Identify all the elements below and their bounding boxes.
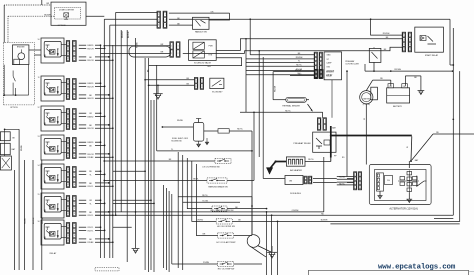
svg-text:RD/YL: RD/YL: [285, 110, 292, 112]
svg-text:3: 3: [74, 179, 75, 181]
svg-text:RD/WH: RD/WH: [296, 57, 303, 59]
svg-text:HANDLE SW: HANDLE SW: [195, 30, 207, 33]
svg-text:14: 14: [38, 165, 40, 167]
svg-text:15: 15: [38, 194, 40, 196]
svg-text:10: 10: [38, 39, 40, 41]
svg-text:RD/GN: RD/GN: [275, 85, 277, 92]
svg-text:1: 1: [74, 43, 75, 45]
svg-text:BK/OR: BK/OR: [87, 98, 94, 100]
svg-text:BK/RD: BK/RD: [88, 142, 95, 144]
svg-text:BU/WH: BU/WH: [321, 220, 328, 222]
svg-text:1: 1: [196, 80, 197, 82]
svg-text:4: 4: [74, 96, 75, 98]
svg-text:RD/BU: RD/BU: [177, 120, 184, 122]
svg-text:3: 3: [74, 208, 75, 210]
svg-text:2: 2: [74, 145, 75, 147]
svg-text:RELAY: RELAY: [50, 252, 57, 255]
svg-text:RD/YL: RD/YL: [237, 128, 244, 130]
svg-text:BK/RD: BK/RD: [88, 45, 95, 47]
svg-text:RD/YL: RD/YL: [88, 227, 95, 229]
svg-text:BK/RD: BK/RD: [88, 116, 95, 118]
svg-text:1: 1: [74, 140, 75, 142]
svg-text:4: 4: [74, 155, 75, 157]
svg-text:GND: GND: [327, 55, 332, 57]
svg-text:RD/YL: RD/YL: [88, 215, 95, 217]
svg-text:16: 16: [38, 221, 40, 223]
svg-text:PREHEAT: PREHEAT: [345, 60, 355, 63]
svg-text:RD/WH: RD/WH: [122, 31, 124, 38]
svg-text:1: 1: [178, 46, 179, 48]
svg-text:PU/BN: PU/BN: [203, 262, 210, 264]
svg-text:RD/OR: RD/OR: [87, 60, 94, 62]
svg-text:RD/OR: RD/OR: [87, 86, 94, 88]
svg-text:13: 13: [38, 136, 40, 138]
svg-text:12: 12: [38, 107, 40, 109]
svg-text:3: 3: [74, 121, 75, 123]
svg-text:LAMP: LAMP: [327, 61, 333, 64]
svg-text:2: 2: [74, 230, 75, 232]
svg-text:4: 4: [74, 58, 75, 60]
svg-text:RD/GN: RD/GN: [295, 70, 302, 72]
svg-text:AIR HEATER: AIR HEATER: [290, 169, 302, 172]
svg-text:START RELAY: START RELAY: [425, 54, 439, 57]
svg-text:RD/BK: RD/BK: [88, 242, 95, 244]
svg-text:RD/BK: RD/BK: [21, 144, 23, 151]
svg-text:4: 4: [74, 213, 75, 215]
svg-text:THERMAL SENDER: THERMAL SENDER: [282, 105, 300, 108]
svg-text:1: 1: [74, 169, 75, 171]
svg-text:E/C COOLANT TEMP: E/C COOLANT TEMP: [217, 241, 237, 244]
svg-text:2: 2: [196, 86, 197, 88]
svg-text:SOLENOID: SOLENOID: [171, 140, 182, 142]
svg-text:ALTERNATOR (12V-51A): ALTERNATOR (12V-51A): [389, 208, 418, 211]
svg-text:3: 3: [74, 235, 75, 237]
svg-text:32: 32: [364, 118, 366, 120]
svg-text:OPTION: OPTION: [10, 107, 18, 109]
svg-text:RD/WH: RD/WH: [44, 14, 51, 16]
svg-text:1: 1: [74, 225, 75, 227]
svg-text:ON: ON: [289, 181, 293, 183]
svg-text:L/S OIL PRESS SW: L/S OIL PRESS SW: [202, 167, 219, 169]
svg-text:OR/WH: OR/WH: [292, 210, 299, 212]
svg-text:2: 2: [74, 174, 75, 176]
svg-text:3: 3: [74, 150, 75, 152]
svg-text:RD/YL: RD/YL: [88, 186, 95, 188]
svg-text:www.epcatalogs.com: www.epcatalogs.com: [378, 263, 456, 271]
svg-text:W: W: [406, 147, 408, 149]
svg-text:RD/OR: RD/OR: [87, 128, 94, 130]
svg-text:BK/WH: BK/WH: [128, 31, 130, 38]
svg-text:RD/WH: RD/WH: [383, 33, 390, 35]
svg-text:1: 1: [74, 111, 75, 113]
svg-text:2: 2: [74, 48, 75, 50]
svg-text:3: 3: [74, 53, 75, 55]
svg-text:4: 4: [74, 126, 75, 128]
svg-text:RD/WH: RD/WH: [42, 217, 44, 224]
svg-text:RD/WH: RD/WH: [394, 69, 401, 71]
svg-text:RD/OR: RD/OR: [87, 48, 94, 50]
svg-text:YL/GN: YL/GN: [202, 201, 208, 203]
svg-text:PREHEAT RELAY: PREHEAT RELAY: [293, 142, 311, 145]
svg-text:3: 3: [74, 91, 75, 93]
svg-text:4: 4: [74, 184, 75, 186]
svg-text:2: 2: [74, 86, 75, 88]
svg-text:1: 1: [74, 198, 75, 200]
svg-text:ECONOMY: ECONOMY: [212, 92, 223, 94]
svg-text:RD/BK: RD/BK: [25, 217, 27, 224]
svg-text:2: 2: [74, 116, 75, 118]
svg-text:OR/RD: OR/RD: [197, 220, 204, 222]
svg-text:SOLENOID VALVE: SOLENOID VALVE: [194, 61, 212, 64]
svg-text:ENGINE: ENGINE: [17, 47, 25, 49]
svg-text:BK/WH: BK/WH: [33, 217, 35, 224]
svg-text:4: 4: [74, 240, 75, 242]
svg-text:CONTROLLER: CONTROLLER: [345, 64, 359, 66]
svg-text:RD/YL: RD/YL: [296, 65, 303, 67]
svg-text:RD/YL: RD/YL: [202, 195, 209, 197]
svg-text:2: 2: [74, 203, 75, 205]
svg-text:RD/YL: RD/YL: [88, 230, 95, 232]
svg-text:H/O OIL TEMP SW: H/O OIL TEMP SW: [218, 269, 235, 271]
svg-text:PWR: PWR: [209, 46, 214, 48]
svg-text:1: 1: [74, 81, 75, 83]
svg-text:RD/YL: RD/YL: [308, 159, 315, 161]
svg-text:2: 2: [178, 53, 179, 55]
svg-text:BK/RD: BK/RD: [88, 83, 95, 85]
svg-text:OPTION: OPTION: [58, 25, 66, 27]
svg-text:RD/BN: RD/BN: [339, 177, 346, 179]
svg-text:RD/BK: RD/BK: [88, 157, 95, 159]
svg-text:11: 11: [38, 77, 40, 79]
svg-text:H/O OIL FILTER SW: H/O OIL FILTER SW: [217, 226, 235, 228]
svg-text:RD/OR: RD/OR: [87, 154, 94, 156]
svg-text:DIODE-REG: DIODE-REG: [290, 193, 301, 195]
svg-text:PARKING BRAKE SW: PARKING BRAKE SW: [208, 186, 228, 189]
svg-text:SENDER: SENDER: [326, 72, 334, 74]
svg-text:BATTERY: BATTERY: [393, 105, 403, 108]
svg-text:DOME LIGHTER: DOME LIGHTER: [59, 9, 75, 11]
svg-text:RD/BK: RD/BK: [137, 41, 139, 48]
svg-text:RELAY: RELAY: [326, 75, 333, 78]
